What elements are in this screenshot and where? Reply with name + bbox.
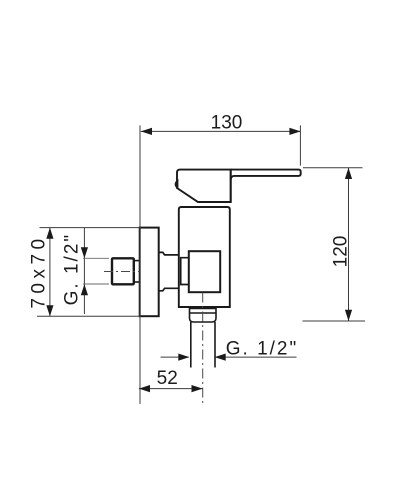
svg-text:130: 130 — [211, 112, 243, 133]
svg-text:70x70: 70x70 — [28, 234, 49, 308]
stem between flange and body — [159, 252, 179, 290]
wall flange plate — [140, 228, 159, 317]
dimension 52 — [139, 388, 203, 390]
cartridge cover square — [189, 251, 220, 292]
centerline outlet (vertical dash-dot) — [202, 293, 204, 404]
handle lever — [231, 170, 301, 202]
svg-text:120: 120 — [331, 236, 352, 268]
label G.1/2 inlet — [62, 233, 83, 306]
svg-text:52: 52 — [157, 368, 178, 389]
extension line flange bottom (left) — [37, 315, 140, 317]
dimension 120 — [348, 168, 350, 321]
valve body — [179, 207, 230, 307]
inlet nipple G1/2 — [112, 258, 134, 284]
extension line lever top (right) — [303, 167, 363, 169]
extension line outlet bottom (right) — [303, 320, 366, 322]
outlet tube — [191, 322, 215, 368]
handle pin dot — [176, 181, 178, 188]
outlet threaded collar — [190, 309, 217, 323]
dimension G.1/2 inlet leader line — [83, 228, 85, 314]
extension line lever tip — [299, 125, 301, 165]
handle block — [177, 170, 231, 202]
nipple neck — [134, 261, 140, 282]
dimension 70x70 — [49, 228, 51, 317]
svg-text:G. 1/2": G. 1/2" — [226, 339, 299, 360]
extension lines inlet nipple — [83, 258, 109, 284]
cartridge side notch — [181, 258, 189, 285]
centerline inlet (horizontal dash-dot) — [104, 271, 140, 273]
svg-text:G. 1/2": G. 1/2" — [62, 233, 83, 306]
dimension 130 — [141, 130, 301, 132]
dimension G.1/2 outlet — [161, 356, 297, 358]
extension line flange top (left) — [40, 227, 140, 229]
extension line wall plane — [139, 125, 141, 404]
